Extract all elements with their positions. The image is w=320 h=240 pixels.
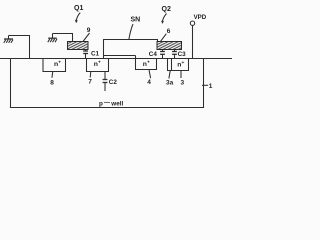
ground G1 [4,36,13,43]
n+ region 7 [87,59,109,72]
svg-text:+: + [147,61,150,66]
arrow Q2 [162,14,166,23]
leader label 4 [149,70,151,79]
svg-text:6: 6 [167,28,171,35]
arrow Q1 [76,13,80,22]
svg-text:+: + [182,61,185,66]
n+ region 8 [43,59,66,72]
wire ground G2 to gate 9 [53,34,73,42]
leader SN [129,24,133,39]
region 3a divider [171,59,173,71]
capacitor C2 [103,72,108,92]
svg-text:C3: C3 [178,51,187,58]
gate 6 of Q2 [157,42,182,50]
leader label 8 [51,72,54,78]
svg-text:+: + [58,61,61,66]
n+ region 4 [136,56,157,70]
leader label 9 [83,33,90,42]
svg-text:8: 8 [50,79,54,86]
SN storage node plate [104,40,158,59]
capacitor C4 [160,50,165,59]
svg-text:3a: 3a [166,80,174,87]
svg-text:VPD: VPD [194,14,207,21]
wire substrate surface line [0,58,232,60]
svg-text:4: 4 [147,79,151,86]
svg-text:7: 7 [88,79,92,86]
leader label 3 [180,71,182,78]
svg-text:3: 3 [181,79,185,86]
svg-text:—: — [104,100,110,106]
gate 9 of Q1 [68,42,89,50]
leader label 1 [202,84,208,86]
wire VPD to surface [192,25,194,58]
svg-text:SN: SN [131,17,141,24]
svg-text:Q2: Q2 [162,6,171,13]
svg-text:Q1: Q1 [74,5,83,12]
svg-text:C1: C1 [91,51,100,58]
arrowhead Q2 [161,21,164,24]
svg-text:C2: C2 [109,79,118,86]
svg-text:C4: C4 [149,51,158,58]
VPD terminal [190,21,194,25]
capacitor C1 [83,50,88,59]
wire ground G1 to surface [9,36,30,59]
svg-text:p: p [99,101,103,108]
leader label 3a [169,71,170,79]
p-well box [11,59,204,108]
capacitor C3 [172,50,177,59]
n+ region 3 [168,59,189,71]
leader label 6 [160,34,166,42]
ground G2 [48,34,57,43]
svg-text:1: 1 [209,83,213,90]
leader label 7 [89,72,92,78]
svg-text:well: well [110,101,123,108]
arrowhead Q1 [75,20,78,23]
svg-text:+: + [98,61,101,66]
svg-text:9: 9 [87,27,91,34]
